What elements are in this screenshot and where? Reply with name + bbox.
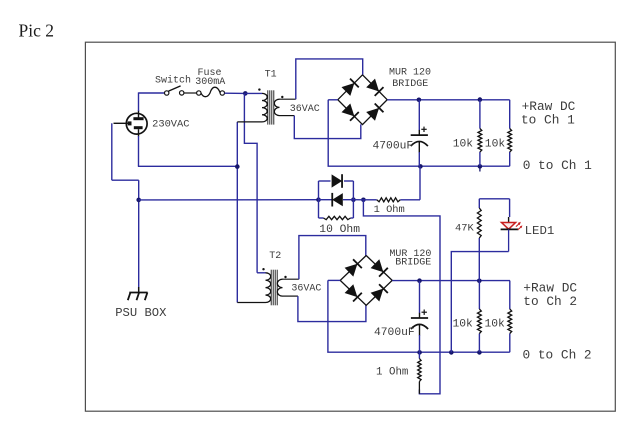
svg-text:10 Ohm: 10 Ohm — [319, 224, 360, 236]
svg-text:+Raw DC: +Raw DC — [522, 99, 576, 114]
svg-text:10k: 10k — [485, 139, 506, 151]
svg-text:PSU BOX: PSU BOX — [115, 306, 167, 320]
svg-text:0 to Ch 1: 0 to Ch 1 — [523, 158, 592, 173]
svg-text:Switch: Switch — [155, 75, 191, 87]
svg-text:1 Ohm: 1 Ohm — [376, 366, 408, 378]
svg-text:300mA: 300mA — [195, 77, 225, 88]
svg-text:to Ch 2: to Ch 2 — [523, 294, 577, 309]
svg-text:36VAC: 36VAC — [291, 284, 321, 295]
svg-text:1 Ohm: 1 Ohm — [374, 204, 405, 216]
svg-text:T2: T2 — [269, 251, 281, 262]
svg-text:BRIDGE: BRIDGE — [392, 79, 428, 90]
svg-text:T1: T1 — [265, 70, 277, 81]
svg-text:47K: 47K — [455, 222, 474, 234]
svg-text:4700uF: 4700uF — [373, 141, 414, 153]
svg-text:36VAC: 36VAC — [290, 104, 320, 115]
svg-text:10k: 10k — [453, 139, 474, 151]
svg-text:4700uF: 4700uF — [374, 327, 415, 339]
svg-text:230VAC: 230VAC — [152, 119, 189, 131]
svg-text:0 to Ch 2: 0 to Ch 2 — [523, 348, 592, 363]
svg-text:Pic 2: Pic 2 — [19, 21, 55, 41]
svg-text:10k: 10k — [453, 319, 474, 331]
svg-text:BRIDGE: BRIDGE — [395, 258, 431, 269]
svg-text:LED1: LED1 — [525, 224, 555, 238]
svg-text:to Ch 1: to Ch 1 — [521, 113, 575, 128]
svg-text:10k: 10k — [485, 319, 506, 331]
svg-text:MUR 120: MUR 120 — [389, 67, 431, 78]
